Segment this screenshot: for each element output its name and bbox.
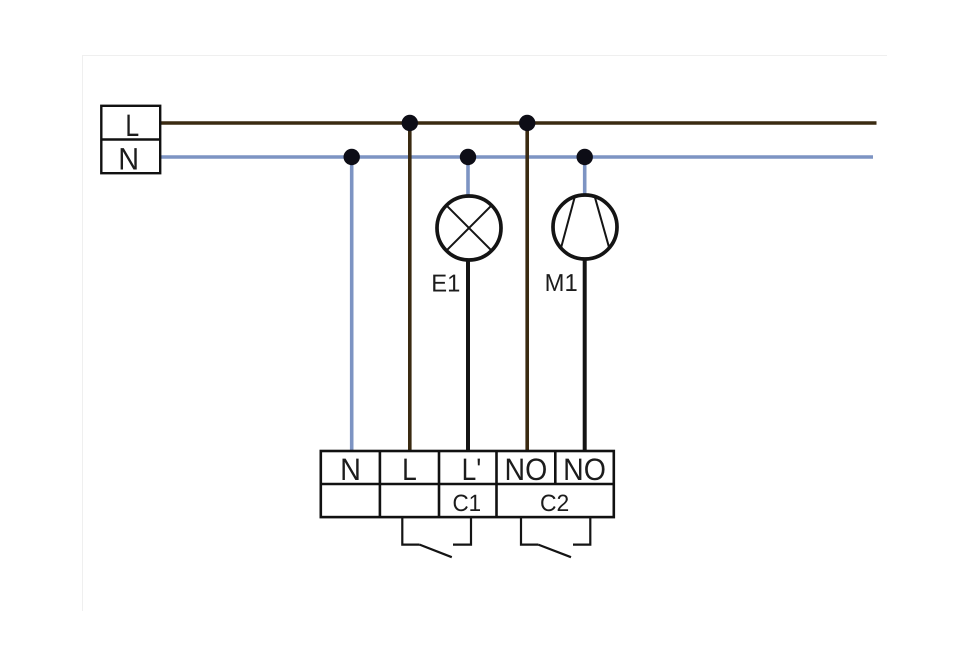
svg-text:NO: NO bbox=[563, 452, 606, 487]
junction: N bus / lamp drop bbox=[460, 149, 476, 165]
junction: N bus / motor drop bbox=[577, 149, 593, 165]
svg-text:N: N bbox=[118, 142, 139, 177]
diagram card background bbox=[82, 55, 887, 611]
junction: L bus / L drop bbox=[402, 115, 418, 131]
wire: blue drop from N bus to terminal N bbox=[350, 157, 354, 452]
wire: blue neutral bus N (horizontal) bbox=[160, 155, 873, 159]
switch contact C1 (relay contact under L/C1) bbox=[402, 517, 471, 557]
wire: brown drop from L bus to terminal NO bbox=[525, 123, 529, 452]
svg-text:E1: E1 bbox=[431, 270, 460, 297]
svg-text:L: L bbox=[125, 108, 139, 143]
junction: N bus / terminal N drop bbox=[344, 149, 360, 165]
wire: blue drop from N bus to lamp E1 bbox=[466, 157, 470, 196]
wire: brown drop from L bus to terminal L bbox=[408, 123, 412, 452]
wire: brown phase bus L (horizontal) bbox=[160, 121, 877, 125]
junction: L bus / NO drop bbox=[519, 115, 535, 131]
svg-text:C2: C2 bbox=[540, 491, 569, 517]
lamp E1 bbox=[437, 196, 501, 260]
supply terminal box L/N bbox=[101, 106, 160, 173]
wire: blue drop from N bus to motor M1 bbox=[583, 157, 587, 196]
terminal block bbox=[321, 451, 614, 517]
svg-text:N: N bbox=[340, 452, 361, 487]
motor/fan M1 bbox=[553, 195, 617, 259]
wire: black motor M1 to terminal NO bbox=[583, 259, 587, 452]
svg-text:C1: C1 bbox=[452, 491, 481, 517]
svg-text:L': L' bbox=[462, 452, 482, 487]
wire: black lamp E1 to terminal L' bbox=[466, 260, 470, 452]
switch contact C2 (relay contact under NO/C2) bbox=[521, 517, 590, 557]
svg-text:NO: NO bbox=[505, 452, 548, 487]
svg-text:L: L bbox=[402, 452, 417, 487]
svg-text:M1: M1 bbox=[545, 270, 578, 297]
